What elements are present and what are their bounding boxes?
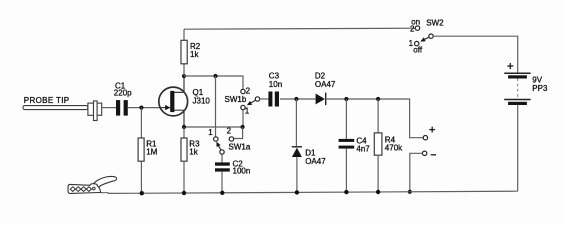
wire source node line	[184, 126, 243, 128]
svg-text:1: 1	[208, 128, 213, 137]
label R1 value 1M	[146, 140, 157, 157]
svg-text:470k: 470k	[385, 144, 403, 153]
label R2 value 1k	[190, 42, 201, 59]
svg-text:D1: D1	[305, 148, 316, 157]
capacitor C1	[116, 100, 128, 116]
node R3 ground junction	[182, 191, 186, 195]
svg-text:4n7: 4n7	[356, 144, 370, 153]
node C3 D1 junction	[294, 97, 298, 101]
wire D1 to ground rail	[296, 157, 298, 193]
switch SW1b arm	[247, 100, 256, 105]
wire junction to SW1a pin2	[234, 127, 243, 139]
node SW1b junction	[241, 125, 245, 129]
svg-text:SW1a: SW1a	[229, 143, 251, 152]
label C2 value 100n	[233, 159, 251, 175]
transistor Q1 J310	[159, 76, 188, 127]
label C3 value 10n	[269, 72, 282, 89]
resistor R2	[181, 40, 187, 64]
resistor R1	[138, 138, 144, 161]
battery BT1 9V PP3	[504, 73, 530, 105]
svg-text:1: 1	[245, 107, 250, 116]
wire C4 to ground rail	[345, 149, 347, 193]
svg-text:J310: J310	[193, 97, 211, 106]
wire crocodile clip to rail	[101, 192, 109, 193]
label R4 value 470k	[385, 135, 403, 152]
node R1 ground junction	[140, 191, 144, 195]
output terminal minus	[422, 151, 426, 155]
wire SW1b common to C3	[260, 98, 269, 100]
wire D2 to output	[326, 99, 424, 138]
wire R3 to ground rail	[183, 161, 185, 193]
node D1 ground junction	[295, 190, 299, 194]
output terminal plus	[423, 136, 427, 140]
node R4 junction	[376, 97, 380, 101]
label battery plus	[507, 63, 513, 69]
node minus ground junction	[408, 190, 412, 194]
wire top rail to SW2	[184, 28, 415, 29]
svg-text:1k: 1k	[189, 148, 198, 157]
probe body	[88, 101, 102, 121]
node C4 junction	[344, 97, 348, 101]
wire junction to C4	[345, 99, 347, 139]
wire SW1a common to C2	[221, 154, 223, 162]
node top rail junction	[213, 74, 217, 78]
svg-text:100n: 100n	[233, 167, 251, 176]
svg-text:2: 2	[227, 127, 232, 136]
node source junction	[182, 125, 186, 129]
probe tip needle	[23, 106, 88, 110]
wire C2 to ground rail	[221, 172, 223, 193]
svg-text:off: off	[413, 46, 423, 55]
wire C3 to D2	[280, 98, 316, 100]
resistor R4	[374, 133, 382, 155]
wire battery to ground rail	[517, 105, 519, 191]
svg-text:1k: 1k	[190, 50, 199, 59]
switch SW1a	[214, 137, 234, 154]
node R4 ground junction	[376, 190, 380, 194]
wire drain node to SW1b pin2	[184, 76, 243, 89]
node drain junction	[182, 74, 186, 78]
capacitor C4	[339, 139, 355, 149]
svg-text:1M: 1M	[146, 148, 157, 157]
node C4 ground junction	[344, 190, 348, 194]
label D2 OA47	[315, 72, 336, 89]
wire junction to SW1a pin1	[215, 76, 217, 137]
crocodile clip serrations	[70, 187, 95, 192]
label C4 value 4n7	[356, 136, 370, 153]
label D1 OA47	[305, 148, 326, 166]
switch SW2 arm	[420, 37, 429, 41]
diode D1 OA47	[292, 147, 302, 157]
switch SW2	[415, 26, 434, 46]
switch SW1a arm	[216, 142, 221, 150]
svg-text:OA47: OA47	[305, 157, 326, 166]
label R3 value 1k	[189, 140, 200, 157]
svg-text:2: 2	[246, 87, 251, 96]
wire R2 to top rail	[183, 29, 185, 40]
wire gate node to R1	[140, 108, 142, 138]
svg-text:2: 2	[410, 25, 415, 34]
node gate junction	[139, 106, 143, 110]
wire R4 to ground rail	[377, 155, 379, 192]
wire probe to C1	[102, 107, 116, 109]
svg-text:PP3: PP3	[532, 84, 548, 93]
svg-text:OA47: OA47	[315, 80, 336, 89]
wire R1 to ground rail	[140, 161, 142, 193]
capacitor C2	[215, 162, 230, 171]
wire drain node to R2	[183, 64, 185, 76]
crocodile clip ground	[68, 176, 117, 193]
label 9V PP3	[532, 76, 548, 93]
switch SW1b	[241, 89, 260, 109]
svg-text:220p: 220p	[114, 89, 132, 98]
wire junction to D1	[295, 99, 297, 146]
wire SW2 to battery	[433, 36, 518, 73]
wire junction to R4	[377, 99, 379, 133]
node C2 ground junction	[220, 191, 224, 195]
resistor R3	[181, 138, 187, 161]
label minus sign	[431, 154, 436, 156]
ground rail	[108, 191, 518, 193]
capacitor C3	[268, 92, 279, 107]
wire minus terminal to ground rail	[410, 153, 423, 192]
wire source node to R3	[183, 127, 185, 138]
label plus sign	[429, 127, 435, 133]
diode D2 OA47	[316, 93, 326, 106]
wire C1 to gate	[128, 107, 161, 109]
label C1 value 220p	[114, 81, 132, 97]
svg-text:SW2: SW2	[426, 19, 444, 28]
svg-text:10n: 10n	[269, 80, 282, 89]
svg-text:PROBE TIP: PROBE TIP	[24, 96, 70, 105]
label Q1 J310	[193, 88, 211, 106]
wire SW1b pin1 to source node	[242, 110, 244, 127]
svg-text:SW1b: SW1b	[225, 95, 247, 104]
